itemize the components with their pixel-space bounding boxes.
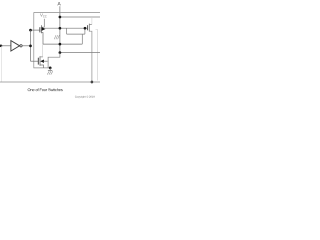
ground hatch: [47, 71, 53, 74]
transistor Q2 NMOS bulk arrow: [40, 60, 44, 63]
TG label hatch: [54, 35, 59, 39]
node junction dot rail2: [59, 16, 62, 19]
wire bottom rail: [0, 81, 100, 83]
node junction dot output: [59, 51, 62, 54]
transistor Q2 NMOS channel bar: [39, 56, 41, 66]
wire TG bottom rail: [43, 43, 82, 45]
transistor Q3 gate bar: [87, 25, 89, 30]
wire staple right riser: [84, 28, 86, 34]
transistor Q2 NMOS bottom stub: [40, 65, 44, 68]
wire Q2 drain faint riser: [42, 44, 44, 57]
wire inverter input: [0, 45, 11, 47]
wire A vertical: [59, 6, 61, 52]
node junction dot right gate: [84, 27, 87, 30]
node input junction dot: [0, 44, 2, 47]
transistor Q2 NMOS gate bar: [37, 58, 39, 65]
wire Q2 middle line right: [43, 60, 47, 62]
transistor Q1 PMOS top stub: [42, 26, 45, 28]
ground bar: [48, 69, 52, 71]
transistor Q3 bottom stub: [89, 31, 92, 82]
wire Q1 middle line to right: [45, 27, 88, 29]
inverter bubble: [20, 45, 22, 47]
node junction dot bottom rail: [91, 81, 94, 84]
wire second top rail: [60, 16, 100, 18]
transistor Q3 top stub: [89, 24, 92, 26]
wire Q1 gate lead: [31, 29, 40, 31]
wire left box edge down to ground line: [34, 12, 51, 68]
wire inverter output: [22, 45, 30, 47]
ground stub: [49, 68, 51, 70]
caption One of Four Switches: [28, 88, 63, 91]
VCC label: [40, 13, 47, 17]
transistor Q2 NMOS top stub: [40, 56, 43, 58]
wire output line mid: [60, 52, 100, 54]
transistor Q1 PMOS gate bar: [39, 27, 41, 32]
wire Q3 source faint riser: [91, 17, 93, 25]
wire right faint vertical: [96, 30, 98, 81]
node junction dot ground node: [49, 67, 52, 70]
transistor Q1 PMOS bottom stub: [42, 33, 44, 45]
node junction dot Q1 line: [59, 27, 62, 30]
wire staple left riser: [66, 28, 68, 34]
copyright note: [75, 96, 95, 98]
wire VCC top rail: [34, 11, 100, 13]
op-amp inverter U1 triangle: [11, 41, 20, 51]
wire L path to ground node: [48, 53, 60, 68]
node A label: [57, 2, 60, 5]
wire faint input drop: [1, 46, 3, 82]
wire left control rail: [30, 30, 32, 61]
node junction dot TG rail: [59, 43, 62, 46]
transistor Q1 PMOS bulk arrow: [42, 27, 46, 31]
wire TG rail riser right: [81, 34, 83, 44]
transistor Q1 PMOS channel bar: [41, 25, 43, 33]
node junction dot inverter output: [29, 45, 32, 48]
wire staple horizontal: [67, 33, 85, 35]
transistor Q3 channel bar: [88, 24, 90, 32]
wire VCC lead down: [43, 19, 45, 27]
wire Q2 gate lead: [31, 60, 39, 62]
node junction dot gate lead: [29, 29, 32, 32]
